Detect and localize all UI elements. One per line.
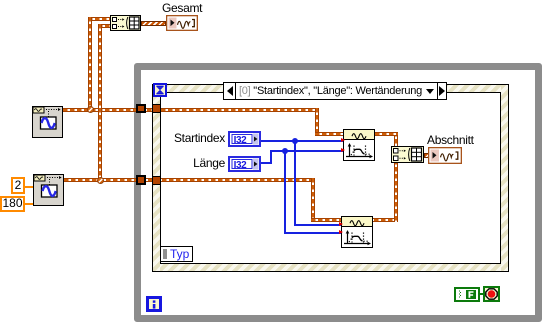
svg-text:I32: I32 bbox=[234, 160, 248, 171]
svg-text:I32: I32 bbox=[234, 135, 248, 146]
